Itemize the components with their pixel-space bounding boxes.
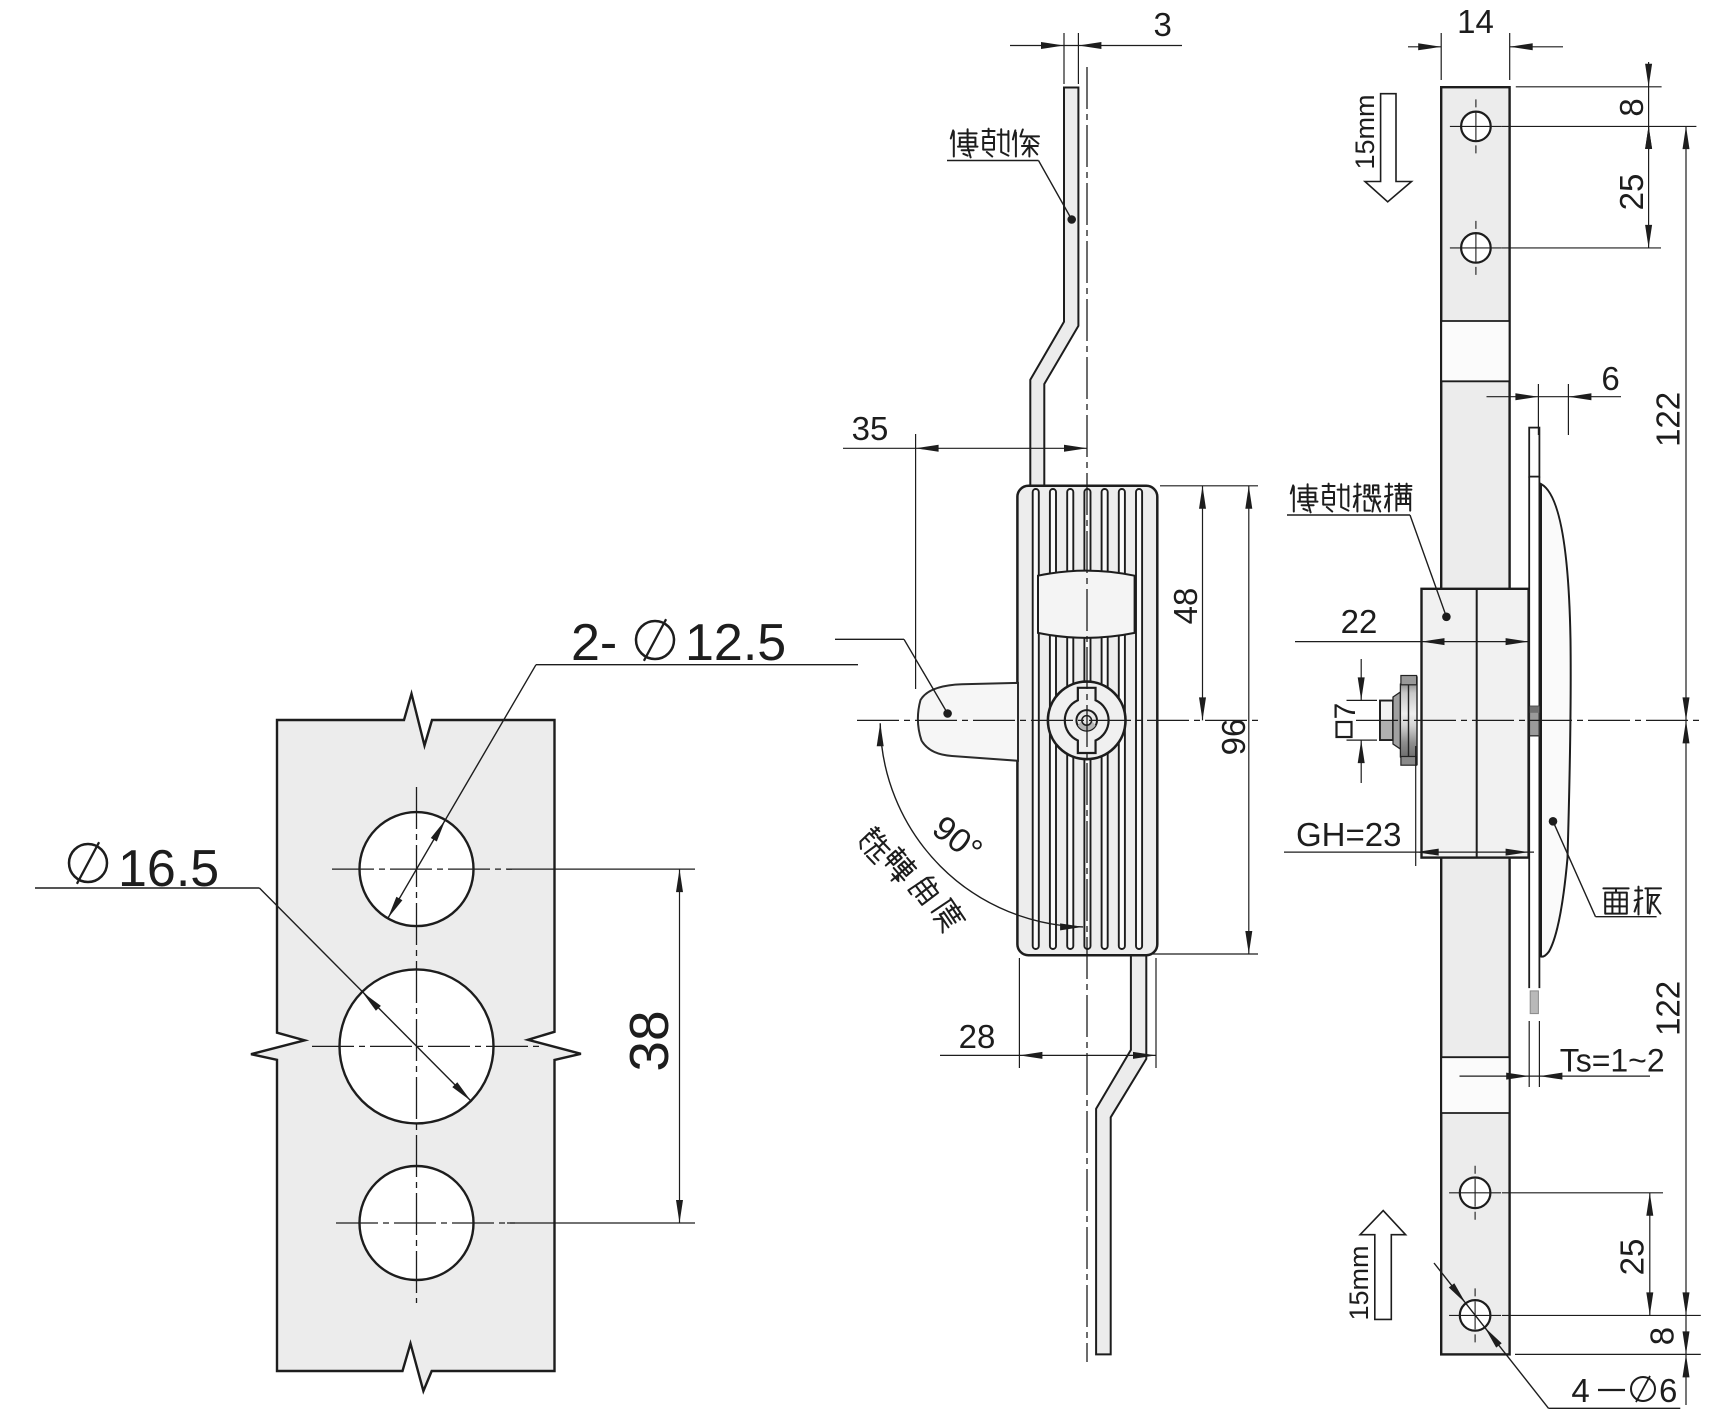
svg-text:28: 28 — [959, 1018, 996, 1055]
svg-text:25: 25 — [1613, 174, 1650, 211]
svg-text:16.5: 16.5 — [118, 840, 219, 898]
svg-text:12.5: 12.5 — [685, 614, 786, 672]
svg-text:14: 14 — [1457, 3, 1494, 40]
svg-text:15mm: 15mm — [1344, 1245, 1374, 1320]
svg-text:35: 35 — [852, 410, 889, 447]
svg-text:8: 8 — [1613, 98, 1650, 116]
svg-text:3: 3 — [1154, 6, 1172, 43]
svg-text:Ts=1~2: Ts=1~2 — [1560, 1043, 1665, 1079]
svg-text:2-: 2- — [571, 614, 617, 672]
svg-text:22: 22 — [1341, 603, 1378, 640]
svg-text:96: 96 — [1215, 719, 1252, 756]
svg-text:15mm: 15mm — [1350, 94, 1380, 169]
svg-text:8: 8 — [1644, 1327, 1681, 1345]
svg-text:122: 122 — [1650, 392, 1687, 447]
svg-text:122: 122 — [1650, 981, 1687, 1036]
svg-text:25: 25 — [1614, 1239, 1651, 1276]
svg-text:6: 6 — [1659, 1372, 1677, 1409]
svg-text:48: 48 — [1167, 588, 1204, 625]
svg-text:7: 7 — [1329, 703, 1362, 720]
svg-text:38: 38 — [618, 1010, 680, 1071]
svg-text:GH=23: GH=23 — [1296, 816, 1401, 853]
svg-text:6: 6 — [1601, 360, 1619, 397]
svg-text:4: 4 — [1571, 1372, 1589, 1409]
